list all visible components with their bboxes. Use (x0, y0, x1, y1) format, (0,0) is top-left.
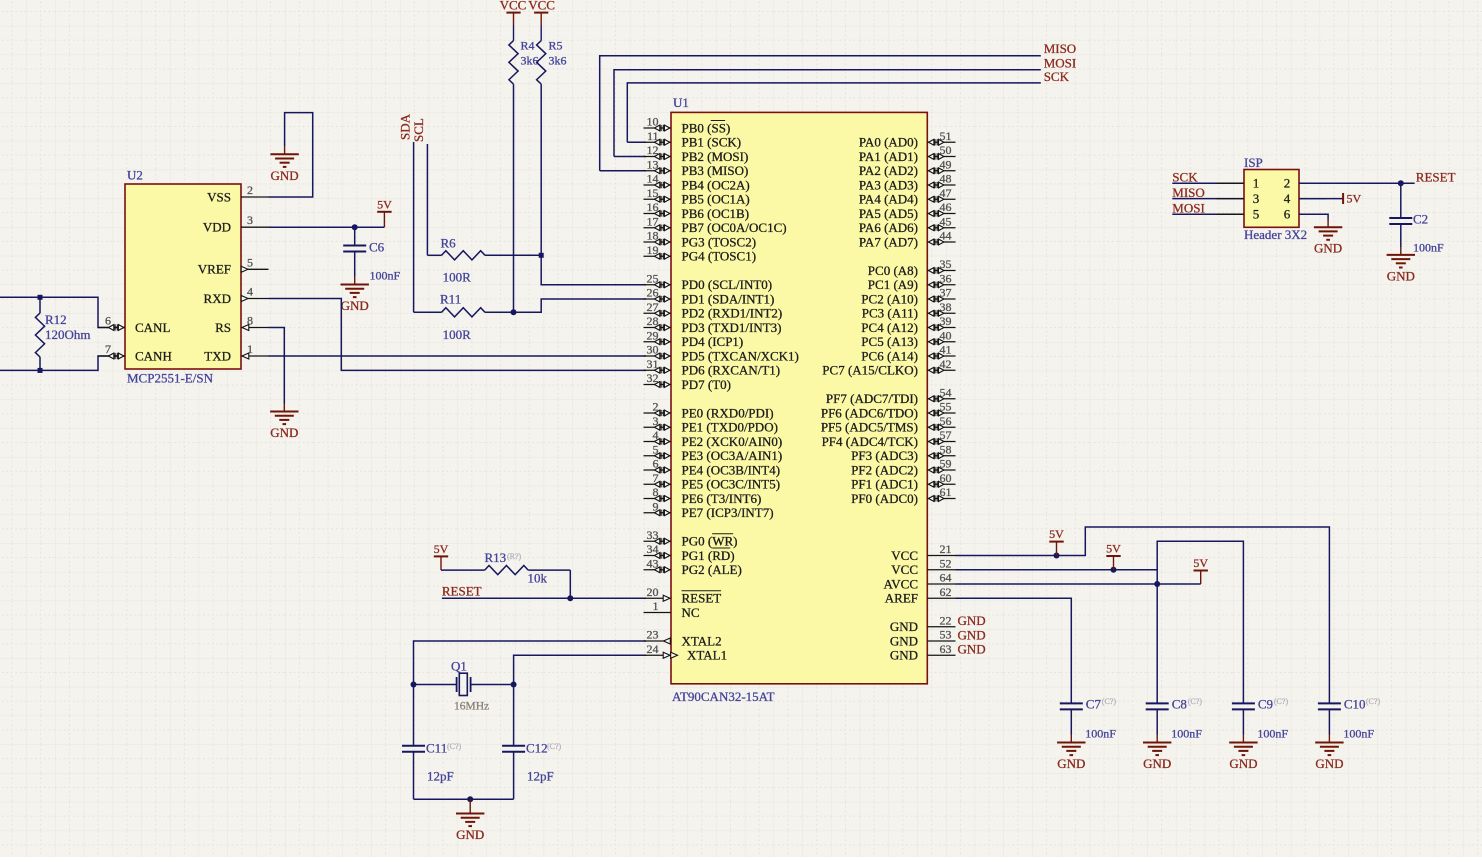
svg-text:(C?): (C?) (547, 742, 562, 751)
svg-text:RXD: RXD (204, 291, 231, 306)
wire SCK net (top) (627, 83, 1041, 142)
svg-text:GND: GND (271, 168, 299, 183)
U1 pin 62 AREF (927, 597, 955, 599)
ISP pin 2 (1299, 182, 1327, 184)
svg-text:SCL: SCL (411, 118, 426, 142)
svg-text:PA6 (AD6): PA6 (AD6) (859, 220, 918, 235)
svg-text:CANL: CANL (135, 320, 170, 335)
svg-text:62: 62 (940, 585, 952, 599)
ground GND (ISP pin6) (1327, 220, 1329, 228)
svg-text:100R: 100R (443, 270, 472, 285)
wire MOSI net (top) (614, 70, 1041, 157)
wire C11 to C12 bottom (414, 798, 514, 800)
U1 pin 6 PE4 (OC3B/INT4) (644, 469, 672, 471)
U1 pin 53 GND (927, 640, 955, 642)
svg-text:PD1 (SDA/INT1): PD1 (SDA/INT1) (682, 291, 775, 306)
power VCC symbol for R4 (513, 13, 515, 25)
svg-text:5V: 5V (434, 542, 449, 556)
svg-text:PE6 (T3/INT6): PE6 (T3/INT6) (682, 491, 762, 506)
svg-text:R12: R12 (45, 312, 67, 327)
svg-text:(C?): (C?) (1188, 697, 1203, 706)
ground GND (C6) (354, 277, 356, 285)
ISP pin 1 (1217, 182, 1245, 184)
U1 pin 22 GND (927, 626, 955, 628)
junction crystal right (511, 682, 517, 688)
svg-text:MOSI: MOSI (1172, 200, 1205, 215)
svg-text:24: 24 (647, 642, 659, 656)
capacitor C8 100nF (1146, 702, 1169, 704)
svg-text:5V: 5V (1193, 556, 1208, 570)
svg-text:VCC: VCC (528, 0, 555, 13)
wire SDA vertical (413, 142, 415, 312)
svg-text:NC: NC (682, 605, 700, 620)
wire VCC pin21 to 5V and C10 (956, 527, 1330, 703)
svg-text:100R: 100R (443, 327, 472, 342)
svg-text:100nF: 100nF (1413, 240, 1444, 254)
svg-text:CANH: CANH (135, 348, 172, 363)
ground GND (U2 VSS) (284, 146, 286, 154)
svg-text:PB5 (OC1A): PB5 (OC1A) (682, 192, 750, 207)
U1 pin 46 PA5 (AD5) (927, 213, 955, 215)
U1 pin 37 PC2 (A10) (927, 298, 955, 300)
svg-text:PC2 (A10): PC2 (A10) (861, 291, 918, 306)
U1 pin 32 PD7 (T0) (644, 384, 672, 386)
svg-text:21: 21 (940, 542, 952, 556)
svg-text:5V: 5V (377, 197, 392, 211)
svg-text:PB3 (MISO): PB3 (MISO) (682, 163, 749, 178)
power VCC symbol for R5 (540, 13, 542, 25)
power 5V (VCC pin52) (1113, 556, 1115, 570)
svg-text:GND: GND (1057, 756, 1085, 771)
svg-text:C6: C6 (369, 240, 385, 255)
U1 pin 55 PF6 (ADC6/TDO) (927, 412, 955, 414)
svg-text:VSS: VSS (207, 189, 231, 204)
svg-text:12pF: 12pF (527, 769, 554, 784)
U1 pin 50 PA1 (AD1) (927, 156, 955, 158)
svg-text:RESET: RESET (682, 591, 722, 606)
U1 pin 1 NC (644, 612, 672, 614)
svg-text:PD4 (ICP1): PD4 (ICP1) (682, 334, 744, 349)
U1 pin 15 PB5 (OC1A) (644, 198, 672, 200)
U1 pin 39 PC4 (A12) (927, 327, 955, 329)
svg-text:PE3 (OC3A/AIN1): PE3 (OC3A/AIN1) (682, 448, 783, 463)
svg-text:7: 7 (105, 342, 111, 356)
ISP pin 3 (1217, 198, 1245, 200)
U1 pin 64 AVCC (927, 583, 955, 585)
U1 pin 8 PE6 (T3/INT6) (644, 498, 672, 500)
svg-text:4: 4 (1284, 191, 1291, 206)
svg-text:PA7 (AD7): PA7 (AD7) (859, 234, 918, 249)
U1 pin 34 PG1 (RD) (644, 555, 672, 557)
svg-text:C2: C2 (1413, 212, 1428, 227)
svg-text:PD2 (RXD1/INT2): PD2 (RXD1/INT2) (682, 306, 783, 321)
svg-text:GND: GND (890, 648, 918, 663)
wire SCK to ISP pin1 (1172, 182, 1244, 184)
svg-text:PF1 (ADC1): PF1 (ADC1) (851, 477, 918, 492)
U1 pin 2 PE0 (RXD0/PDI) (644, 412, 672, 414)
svg-text:PE5 (OC3C/INT5): PE5 (OC3C/INT5) (682, 477, 781, 492)
U1 pin 56 PF5 (ADC5/TMS) (927, 426, 955, 428)
svg-text:Header 3X2: Header 3X2 (1244, 227, 1307, 242)
wire AREF pin62 to C7 (956, 598, 1072, 703)
wire R4 bottom to SDA junction (513, 84, 515, 312)
svg-text:PE2 (XCK0/AIN0): PE2 (XCK0/AIN0) (682, 434, 783, 449)
svg-text:53: 53 (940, 628, 952, 642)
svg-text:PF5 (ADC5/TMS): PF5 (ADC5/TMS) (821, 420, 918, 435)
U1 pin 14 PB4 (OC2A) (644, 184, 672, 186)
svg-text:PB6 (OC1B): PB6 (OC1B) (682, 206, 750, 221)
wire XTAL1 pin24 to crystal (514, 655, 646, 684)
U1 pin 48 PA3 (AD3) (927, 184, 955, 186)
svg-text:C8: C8 (1172, 697, 1187, 712)
svg-text:PG4 (TOSC1): PG4 (TOSC1) (682, 249, 757, 264)
svg-text:R13: R13 (485, 550, 507, 565)
U1 pin 57 PF4 (ADC4/TCK) (927, 441, 955, 443)
U1 pin 19 PG4 (TOSC1) (644, 255, 672, 257)
U1 pin 40 PC5 (A13) (927, 341, 955, 343)
svg-text:100nF: 100nF (1343, 727, 1374, 741)
svg-text:6: 6 (1284, 207, 1291, 222)
svg-text:GND: GND (958, 627, 986, 642)
svg-text:AVCC: AVCC (884, 576, 918, 591)
resistor R5 3k6 (537, 41, 546, 85)
wire R5 bottom to SCL junction (540, 84, 542, 255)
svg-text:SCK: SCK (1172, 170, 1198, 185)
svg-text:PA4 (AD4): PA4 (AD4) (859, 192, 918, 207)
svg-text:C7: C7 (1086, 697, 1102, 712)
U1 pin 44 PA7 (AD7) (927, 241, 955, 243)
junction VDD/C6 (352, 224, 358, 230)
svg-text:MISO: MISO (1044, 41, 1077, 56)
junction SDA/R11/R4 (511, 309, 517, 315)
resistor R12 120Ohm (39, 297, 41, 313)
svg-text:PA0 (AD0): PA0 (AD0) (859, 135, 918, 150)
junction VCC52/5V (1111, 567, 1117, 573)
svg-text:C10: C10 (1344, 697, 1366, 712)
capacitor C12 12pF (513, 685, 515, 746)
svg-text:PB1 (SCK): PB1 (SCK) (682, 135, 742, 150)
wire ISP pin2 to RESET (1299, 182, 1415, 184)
U1 pin 7 PE5 (OC3C/INT5) (644, 483, 672, 485)
svg-text:PG1 (RD): PG1 (RD) (682, 548, 735, 563)
wire TXD pin1 to PD5 (TXCAN) (269, 355, 647, 357)
svg-text:3k6: 3k6 (521, 54, 539, 68)
svg-text:PF3 (ADC3): PF3 (ADC3) (851, 448, 918, 463)
U1 pin 58 PF3 (ADC3) (927, 455, 955, 457)
svg-text:PE4 (OC3B/INT4): PE4 (OC3B/INT4) (682, 462, 781, 477)
wire R11 junction to PD1 pin 26 (514, 299, 647, 312)
svg-text:ISP: ISP (1244, 155, 1263, 170)
svg-text:VDD: VDD (203, 220, 231, 235)
svg-text:PB4 (OC2A): PB4 (OC2A) (682, 177, 750, 192)
svg-text:PF4 (ADC4/TCK): PF4 (ADC4/TCK) (822, 434, 918, 449)
capacitor C10 100nF (1318, 702, 1341, 704)
svg-text:GND: GND (270, 425, 298, 440)
ground GND (C8) (1156, 735, 1158, 743)
ground GND (C7) (1070, 735, 1072, 743)
U1 pin 45 PA6 (AD6) (927, 227, 955, 229)
svg-text:120Ohm: 120Ohm (45, 327, 91, 342)
svg-text:RESET: RESET (442, 584, 482, 599)
svg-text:(C?): (C?) (1274, 697, 1289, 706)
svg-text:PF7 (ADC7/TDI): PF7 (ADC7/TDI) (826, 391, 918, 406)
svg-text:PD5 (TXCAN/XCK1): PD5 (TXCAN/XCK1) (682, 348, 799, 363)
svg-text:MCP2551-E/SN: MCP2551-E/SN (127, 371, 214, 386)
svg-text:PC3 (A11): PC3 (A11) (862, 306, 918, 321)
svg-text:GND: GND (890, 619, 918, 634)
svg-text:SCK: SCK (1044, 69, 1070, 84)
U1 pin 24 XTAL1 (644, 654, 672, 656)
wire VCC pin52 to C9 (956, 541, 1244, 703)
U1 pin 21 VCC (927, 555, 955, 557)
U2 pin 8 RS (241, 327, 269, 329)
svg-text:100nF: 100nF (1257, 727, 1288, 741)
connector ISP Header 3X2 body (1244, 170, 1299, 228)
U1 pin 18 PG3 (TOSC2) (644, 241, 672, 243)
capacitor C2 100nF (1400, 183, 1402, 218)
U2 pin 6 CANL (98, 327, 126, 329)
power 5V (ISP pin4, rotated) (1342, 193, 1344, 204)
svg-text:16MHz: 16MHz (454, 701, 489, 713)
U1 pin 52 VCC (927, 569, 955, 571)
svg-text:RS: RS (215, 320, 231, 335)
svg-text:4: 4 (247, 285, 253, 299)
svg-text:3: 3 (247, 213, 253, 227)
junction AVCC (1154, 581, 1160, 587)
svg-text:(C?): (C?) (447, 742, 462, 751)
svg-text:U1: U1 (673, 95, 689, 110)
svg-text:AT90CAN32-15AT: AT90CAN32-15AT (672, 689, 775, 704)
U1 pin 38 PC3 (A11) (927, 312, 955, 314)
U2 pin 4 RXD (241, 298, 269, 300)
svg-text:PA3 (AD3): PA3 (AD3) (859, 177, 918, 192)
U1 pin 35 PC0 (A8) (927, 270, 955, 272)
svg-text:2: 2 (247, 183, 253, 197)
svg-text:23: 23 (647, 628, 659, 642)
svg-text:PF0 (ADC0): PF0 (ADC0) (851, 491, 918, 506)
ground GND (U2 RS) (283, 404, 285, 412)
wire RESET to pin 20 (442, 597, 646, 599)
svg-text:R11: R11 (440, 292, 461, 307)
svg-text:C12: C12 (526, 741, 548, 756)
U1 pin 49 PA2 (AD2) (927, 170, 955, 172)
U2 pin 1 TXD (241, 355, 269, 357)
junction CANL/R12 (square) (38, 295, 43, 300)
U1 pin 9 PE7 (ICP3/INT7) (644, 512, 672, 514)
svg-text:GND: GND (1143, 756, 1171, 771)
wire XTAL2 pin23 to crystal (414, 641, 647, 685)
resistor R11 100R (414, 311, 442, 313)
wire MOSI to ISP pin5 (1172, 213, 1244, 215)
svg-text:GND: GND (1229, 756, 1257, 771)
wire RXD pin4 to PD6 (RXCAN) (269, 299, 647, 371)
svg-text:PA5 (AD5): PA5 (AD5) (859, 206, 918, 221)
svg-text:PB7 (OC0A/OC1C): PB7 (OC0A/OC1C) (682, 220, 787, 235)
svg-text:100nF: 100nF (1085, 727, 1116, 741)
wire MOSI to PB2 (614, 156, 646, 158)
svg-text:C11: C11 (426, 741, 447, 756)
svg-text:PE1 (TXD0/PDO): PE1 (TXD0/PDO) (682, 420, 778, 435)
svg-text:5: 5 (247, 255, 253, 269)
svg-text:GND: GND (456, 827, 484, 842)
wire ISP pin4 to 5V (1299, 198, 1343, 200)
ground GND (C2) (1400, 247, 1402, 255)
wire MISO net (top) (600, 56, 1041, 171)
ground GND (C9) (1242, 735, 1244, 743)
junction XTAL GND (467, 796, 473, 802)
junction crystal left (411, 682, 417, 688)
capacitor C9 100nF (1232, 702, 1255, 704)
power 5V (U2 VDD) (383, 212, 385, 227)
svg-text:PG0 (WR): PG0 (WR) (682, 534, 738, 549)
capacitor C7 100nF (1060, 702, 1083, 704)
ground GND (crystal) (469, 799, 471, 813)
U1 pin 63 GND (927, 654, 955, 656)
U2 pin 7 CANH (98, 355, 126, 357)
wire RS pin8 to GND (269, 328, 285, 404)
svg-text:PC0 (A8): PC0 (A8) (868, 263, 918, 278)
wire MISO to ISP pin3 (1172, 198, 1244, 200)
wire VSS pin2 to GND (up and over) (269, 113, 313, 197)
svg-text:1: 1 (653, 599, 659, 613)
svg-text:22: 22 (940, 613, 952, 627)
svg-text:PC6 (A14): PC6 (A14) (861, 348, 918, 363)
svg-text:PC5 (A13): PC5 (A13) (861, 334, 918, 349)
svg-text:PE0 (RXD0/PDI): PE0 (RXD0/PDI) (682, 405, 774, 420)
svg-text:RESET: RESET (1416, 170, 1456, 185)
svg-text:PE7 (ICP3/INT7): PE7 (ICP3/INT7) (682, 505, 774, 520)
resistor R4 3k6 (509, 41, 518, 85)
U1 pin 54 PF7 (ADC7/TDI) (927, 398, 955, 400)
svg-text:52: 52 (940, 556, 952, 570)
svg-text:PD0 (SCL/INT0): PD0 (SCL/INT0) (682, 277, 773, 292)
svg-text:R5: R5 (549, 39, 563, 53)
crystal Q1 16MHz (414, 684, 457, 686)
U1 pin 29 PD4 (ICP1) (644, 341, 672, 343)
svg-text:GND: GND (958, 613, 986, 628)
svg-text:Q1: Q1 (451, 659, 467, 674)
U1 pin 61 PF0 (ADC0) (927, 498, 955, 500)
svg-text:XTAL2: XTAL2 (682, 633, 722, 648)
svg-text:5V: 5V (1106, 542, 1121, 556)
junction SCL/R6/R5 (square) (539, 253, 544, 258)
U1 pin 5 PE3 (OC3A/AIN1) (644, 455, 672, 457)
U1 pin 20 RESET (644, 597, 672, 599)
U1 pin 36 PC1 (A9) (927, 284, 955, 286)
svg-text:VREF: VREF (198, 262, 231, 277)
U1 pin 47 PA4 (AD4) (927, 198, 955, 200)
svg-text:PF2 (ADC2): PF2 (ADC2) (851, 462, 918, 477)
wire CANL from page edge through R12 to U2 pin 6 (0, 297, 125, 327)
U2 pin 5 VREF (241, 268, 269, 270)
U1 pin 59 PF2 (ADC2) (927, 469, 955, 471)
svg-text:GND: GND (890, 633, 918, 648)
IC U1 AT90CAN32-15AT body (671, 112, 927, 683)
svg-text:5V: 5V (1049, 527, 1064, 541)
wire VDD pin3 to 5V (269, 226, 385, 228)
wire CANH from page edge through R12 to U2 pin 7 (0, 356, 125, 370)
svg-text:U2: U2 (127, 168, 143, 183)
svg-text:1: 1 (1253, 176, 1260, 191)
U1 pin 30 PD5 (TXCAN/XCK1) (644, 355, 672, 357)
svg-text:GND: GND (1314, 241, 1342, 256)
junction CANH/R12 (square) (38, 368, 43, 373)
svg-text:VCC: VCC (891, 548, 918, 563)
svg-text:R4: R4 (521, 39, 535, 53)
U1 pin 31 PD6 (RXCAN/T1) (644, 369, 672, 371)
ISP pin 4 (1299, 198, 1327, 200)
svg-text:3k6: 3k6 (549, 54, 567, 68)
U1 pin 60 PF1 (ADC1) (927, 483, 955, 485)
svg-text:(C?): (C?) (1102, 697, 1117, 706)
power 5V (VCC pin21) (1056, 542, 1058, 556)
svg-text:PC4 (A12): PC4 (A12) (861, 320, 918, 335)
U1 pin 43 PG2 (ALE) (644, 569, 672, 571)
power 5V (R13) (440, 556, 442, 570)
svg-text:R6: R6 (441, 236, 457, 251)
svg-text:XTAL1: XTAL1 (687, 648, 727, 663)
svg-text:6: 6 (105, 314, 111, 328)
svg-text:64: 64 (940, 571, 952, 585)
svg-text:GND: GND (1387, 268, 1415, 283)
U1 pin 25 PD0 (SCL/INT0) (644, 284, 672, 286)
U1 pin 23 XTAL2 (644, 640, 672, 642)
svg-text:PG2 (ALE): PG2 (ALE) (682, 562, 742, 577)
svg-text:20: 20 (647, 585, 659, 599)
svg-text:12pF: 12pF (427, 769, 454, 784)
svg-text:AREF: AREF (885, 591, 918, 606)
U1 pin 33 PG0 (WR) (644, 540, 672, 542)
svg-text:TXD: TXD (204, 348, 231, 363)
power 5V (AVCC) (1200, 571, 1202, 585)
U2 pin 2 VSS (241, 196, 269, 198)
svg-text:PF6 (ADC6/TDO): PF6 (ADC6/TDO) (821, 405, 918, 420)
U1 pin 51 PA0 (AD0) (927, 141, 955, 143)
svg-text:PC1 (A9): PC1 (A9) (868, 277, 918, 292)
U1 pin 12 PB2 (MOSI) (644, 156, 672, 158)
U1 pin 11 PB1 (SCK) (644, 141, 672, 143)
svg-text:PA1 (AD1): PA1 (AD1) (859, 149, 918, 164)
U1 pin 41 PC6 (A14) (927, 355, 955, 357)
U1 pin 17 PB7 (OC0A/OC1C) (644, 227, 672, 229)
svg-text:PA2 (AD2): PA2 (AD2) (859, 163, 918, 178)
svg-text:C9: C9 (1258, 697, 1273, 712)
capacitor C6 100nF (354, 227, 356, 245)
svg-text:100nF: 100nF (1171, 727, 1202, 741)
U2 pin 3 VDD (241, 226, 269, 228)
U1 pin 3 PE1 (TXD0/PDO) (644, 426, 672, 428)
svg-text:GND: GND (1315, 756, 1343, 771)
svg-text:5: 5 (1253, 207, 1260, 222)
svg-text:VCC: VCC (891, 562, 918, 577)
U1 pin 27 PD2 (RXD1/INT2) (644, 312, 672, 314)
junction VCC21/5V (1054, 553, 1060, 559)
U1 pin 16 PB6 (OC1B) (644, 213, 672, 215)
wire R6 junction to PD0 pin 25 (541, 255, 646, 284)
svg-text:3: 3 (1253, 191, 1260, 206)
wire R13 to RESET net (569, 570, 571, 598)
wire ISP pin6 to GND (1299, 214, 1328, 219)
svg-text:PG3 (TOSC2): PG3 (TOSC2) (682, 234, 757, 249)
svg-text:VCC: VCC (500, 0, 527, 13)
svg-text:PD6 (RXCAN/T1): PD6 (RXCAN/T1) (682, 363, 781, 378)
U1 pin 13 PB3 (MISO) (644, 170, 672, 172)
op-amp U2 MCP2551-E/SN body (125, 184, 241, 369)
junction R13/RESET (567, 595, 573, 601)
svg-text:5V: 5V (1347, 192, 1362, 206)
svg-text:63: 63 (940, 642, 952, 656)
resistor R6 100R (427, 254, 441, 256)
